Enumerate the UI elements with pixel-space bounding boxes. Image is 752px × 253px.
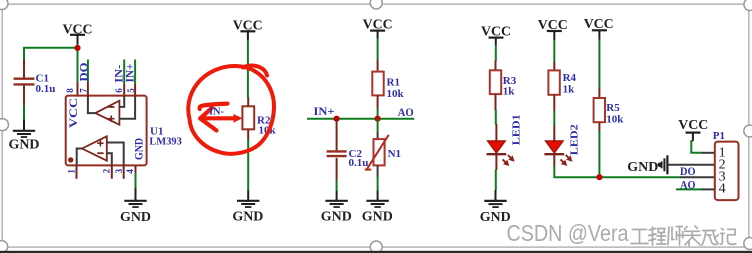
svg-text:DO: DO: [78, 62, 90, 81]
svg-text:4: 4: [719, 182, 726, 197]
junction node at C2: [334, 116, 340, 122]
watermark chinese glyphs: [631, 226, 736, 246]
selection handle top-center: [370, 0, 382, 9]
wire N1 to ground: [377, 177, 379, 191]
svg-text:LED2: LED2: [569, 124, 580, 155]
svg-text:CSDN @Vera: CSDN @Vera: [507, 220, 630, 246]
wire net IN+/AO horizontal: [307, 118, 414, 120]
op-amp U1A triangle: [95, 101, 119, 125]
wire U1A inverting input to pin 6: [119, 96, 124, 107]
svg-text:5: 5: [126, 88, 136, 93]
selection handle bottom-center: [370, 241, 382, 253]
pin 1 dot marker: [68, 157, 73, 162]
wire R3 to LED1: [495, 110, 497, 125]
power VCC symbol (net VCC, top-left): [63, 23, 93, 45]
ground GND (below C2): [321, 191, 352, 225]
svg-text:4: 4: [125, 169, 135, 174]
svg-text:LED1: LED1: [511, 114, 522, 145]
svg-text:0.1u: 0.1u: [36, 83, 56, 95]
annotation hand-drawn arrow pointing at IN- wiper: [200, 104, 235, 131]
svg-text:10k: 10k: [387, 88, 405, 100]
svg-text:GND: GND: [120, 210, 151, 225]
glyph gong: [631, 230, 648, 244]
wire net IN- stub to U1 pin 6: [123, 60, 125, 84]
capacitor C2: [327, 119, 369, 180]
wire R1 to junction: [377, 108, 379, 120]
power VCC symbol (above R3): [481, 25, 511, 45]
wire C1 to ground: [23, 105, 25, 120]
junction node R5/DO: [596, 174, 602, 180]
wire U1B non-inverting input to pin 3: [107, 143, 124, 166]
svg-text:R5: R5: [606, 102, 620, 114]
svg-text:1k: 1k: [563, 84, 576, 96]
LED2 diode: [544, 126, 572, 167]
junction node VCC: [74, 45, 80, 51]
pin 3 of P1: [680, 176, 715, 178]
wire VCC to R2: [247, 40, 249, 98]
ground GND (below C1): [9, 119, 40, 152]
svg-text:IN+: IN+: [125, 64, 137, 83]
selection handle top-right: [744, 0, 752, 11]
ground GND (below N1): [362, 191, 393, 225]
wire U1 pin 4 to ground: [135, 173, 137, 188]
power VCC symbol (above R2): [233, 19, 263, 41]
power VCC symbol (above R1): [363, 18, 393, 39]
svg-text:GND: GND: [321, 210, 352, 225]
ground GND (below LED1): [480, 190, 511, 225]
selection handle left-middle: [0, 119, 9, 131]
glyph yang: [684, 226, 701, 246]
bottom dark window edge: [0, 251, 752, 253]
ground GND (below U1): [120, 188, 151, 225]
wire net IN+ stub to U1 pin 5: [134, 60, 136, 84]
ground GND (below R2): [232, 191, 263, 225]
thermistor N1: [365, 132, 401, 177]
selection handle bottom-left: [0, 241, 8, 253]
wire junction to N1: [377, 119, 379, 133]
wire R4 to LED2: [553, 111, 555, 127]
svg-text:6: 6: [114, 88, 124, 93]
svg-text:IN-: IN-: [209, 106, 224, 118]
wire VCC junction to C1: [24, 48, 78, 60]
pin 4 of P1: [702, 188, 715, 190]
wire LED1 to ground: [495, 170, 497, 191]
svg-text:LM393: LM393: [149, 135, 182, 147]
pin 4 of U1: [135, 165, 137, 173]
annotation arrowhead at R2: [234, 114, 242, 123]
wire net DO stub to U1 pin 7: [87, 60, 89, 83]
svg-text:R1: R1: [387, 76, 400, 88]
svg-text:GND: GND: [362, 210, 393, 225]
wire VCC to R1: [377, 39, 379, 62]
pin 1 of U1: [76, 165, 78, 178]
connector P1 body: [715, 142, 739, 201]
pin 5 of U1: [134, 84, 136, 96]
svg-text:8: 8: [65, 88, 75, 93]
svg-text:0.1u: 0.1u: [349, 157, 369, 169]
resistor R3: [490, 61, 517, 111]
wire LED2 down to DO net: [554, 166, 680, 177]
pin 2 of U1: [111, 165, 113, 178]
glyph shi: [668, 227, 683, 246]
pin 2 of P1: [668, 164, 715, 166]
pin 1 of P1: [702, 152, 715, 154]
svg-text:2: 2: [102, 168, 112, 173]
capacitor C1: [14, 59, 56, 105]
wire U1B inverting input to pin 2: [107, 153, 112, 165]
selection handle bottom-right: [744, 238, 752, 250]
selection handle top-left: [0, 0, 8, 10]
svg-text:GND: GND: [627, 160, 658, 175]
svg-text:GND: GND: [232, 210, 263, 225]
svg-text:1: 1: [67, 169, 77, 174]
power VCC symbol (above R5): [584, 17, 614, 39]
svg-text:DO: DO: [680, 164, 696, 178]
wire R5 to DO net: [598, 131, 600, 177]
power GND port at P1 pin 2: [627, 155, 667, 175]
svg-text:3: 3: [114, 168, 124, 173]
resistor R5: [594, 89, 625, 132]
wire U1A output to pin 7: [88, 96, 95, 114]
wire VCC to R3: [495, 45, 497, 61]
pin 7 of U1: [87, 82, 89, 96]
resistor R1: [372, 61, 404, 109]
svg-text:1k: 1k: [503, 86, 516, 98]
wire VCC to U1 pin 8: [77, 44, 79, 82]
svg-text:IN+: IN+: [314, 104, 335, 118]
op-amp U1 body: [66, 96, 147, 166]
power VCC symbol (above P1): [678, 118, 708, 141]
glyph ji: [720, 229, 736, 245]
svg-text:7: 7: [78, 88, 88, 93]
pin 8 of U1: [77, 82, 79, 96]
svg-text:P1: P1: [713, 130, 725, 142]
wire U1B output to pin 1: [77, 149, 82, 166]
svg-text:GND: GND: [9, 137, 40, 152]
wire C2 to ground: [336, 180, 338, 191]
svg-text:GND: GND: [134, 138, 146, 160]
svg-text:R4: R4: [563, 72, 577, 84]
glyph cheng2: [702, 231, 719, 246]
resistor R4: [548, 62, 576, 111]
wire net AO stub: [676, 188, 702, 190]
power VCC symbol (above R4): [538, 18, 568, 40]
op-amp U1B triangle: [82, 136, 107, 160]
wire VCC to R5: [598, 40, 600, 90]
wire VCC to R4: [553, 40, 555, 63]
LED1 diode: [487, 124, 515, 170]
svg-text:10k: 10k: [606, 114, 624, 126]
junction node at R1/N1: [375, 116, 381, 122]
svg-text:VCC: VCC: [68, 98, 80, 128]
selection handle right-middle: [744, 125, 752, 137]
wire U1A non-inverting input to pin 5: [119, 96, 135, 119]
annotation hand-drawn red circle around R2: [188, 66, 274, 154]
svg-text:N1: N1: [388, 148, 401, 160]
wire VCC to P1 pin 1: [691, 141, 702, 153]
potentiometer R2: [226, 97, 277, 140]
svg-text:AO: AO: [398, 105, 414, 119]
glyph cheng1: [649, 227, 667, 245]
svg-text:VCC: VCC: [678, 118, 708, 133]
wire R2 to ground: [247, 139, 249, 191]
pin 6 of U1: [123, 84, 125, 96]
pin 3 of U1: [123, 165, 125, 178]
